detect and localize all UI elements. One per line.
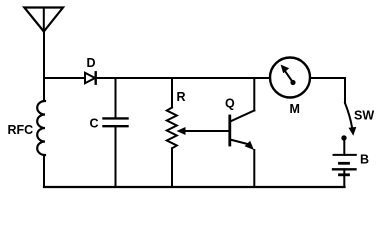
wire: collector up to top rail — [253, 78, 255, 111]
base bar — [228, 116, 231, 145]
switch SW — [341, 103, 356, 141]
wire: switch contact to battery — [343, 138, 345, 155]
wire: battery bottom to bottom rail — [343, 169, 345, 187]
wire: node A (left column) to diode anode — [44, 77, 85, 79]
svg-text:SW: SW — [354, 109, 374, 123]
inductor RFC — [37, 101, 45, 155]
collector diagonal — [230, 111, 254, 122]
transistor Q — [230, 111, 255, 151]
wire: RFC bottom to bottom rail — [43, 155, 45, 187]
svg-text:C: C — [90, 117, 99, 131]
wire: antenna down to RFC top — [43, 32, 45, 102]
wire: diode cathode to meter (top rail) — [97, 77, 270, 79]
svg-text:Q: Q — [225, 97, 235, 111]
wire: capacitor top branch — [115, 78, 117, 118]
wire: resistor top branch — [171, 78, 173, 108]
capacitor C — [104, 118, 128, 126]
wiper arrow wire: transistor base to R — [177, 127, 230, 135]
diode D — [85, 72, 96, 83]
switch contact dot — [341, 135, 346, 140]
meter M — [270, 58, 310, 98]
bottom rail wire — [44, 186, 345, 188]
svg-text:R: R — [177, 90, 186, 104]
battery B — [333, 155, 356, 175]
wire: capacitor bottom to bottom rail — [115, 126, 117, 187]
emitter arrowhead — [245, 141, 254, 150]
svg-text:RFC: RFC — [8, 123, 34, 137]
wire: meter to top-right corner, down to switch — [310, 78, 345, 103]
svg-text:M: M — [290, 102, 300, 116]
emitter diagonal — [230, 140, 248, 145]
svg-text:D: D — [87, 56, 96, 70]
svg-text:B: B — [360, 153, 369, 167]
wire: emitter down to bottom rail — [253, 150, 255, 187]
resistor R (potentiometer body) — [167, 108, 177, 149]
antenna — [24, 8, 63, 32]
wire: resistor bottom to bottom rail — [171, 148, 173, 187]
